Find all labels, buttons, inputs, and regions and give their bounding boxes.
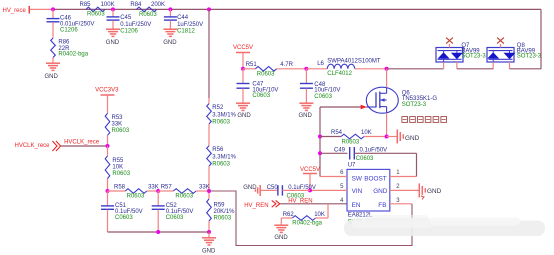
- capacitor C47: [237, 69, 279, 103]
- power VCC5V at VIN: [300, 167, 320, 190]
- svg-text:C1206: C1206: [120, 28, 138, 34]
- diode Q7: [436, 38, 486, 69]
- resistor R62: [281, 204, 328, 227]
- node VCC5V junction: [241, 67, 245, 71]
- svg-text:R84: R84: [130, 2, 142, 8]
- svg-text:10K: 10K: [112, 165, 123, 171]
- watermark: [344, 196, 545, 236]
- capacitor C48: [300, 69, 340, 103]
- capacitor C50: [261, 185, 316, 200]
- svg-text:R0603: R0603: [214, 215, 232, 221]
- capacitor C49: [320, 147, 417, 162]
- op-amp U7 regulator box: [347, 163, 390, 226]
- svg-text:HV_REN: HV_REN: [244, 203, 268, 209]
- svg-text:C0603: C0603: [166, 215, 184, 221]
- node C49 junction: [318, 151, 322, 155]
- svg-text:C1206: C1206: [60, 28, 78, 34]
- ground below C44: [163, 29, 177, 46]
- svg-text:C46: C46: [60, 15, 72, 21]
- svg-text:VCC5V: VCC5V: [233, 45, 253, 51]
- svg-text:C44: C44: [177, 15, 189, 21]
- svg-text:SW: SW: [352, 175, 363, 182]
- ground below C45: [106, 29, 120, 46]
- pin 2 GND: [390, 184, 420, 190]
- svg-text:R0402-bga: R0402-bga: [292, 221, 322, 227]
- wire HV_rece port to C46: [30, 8, 53, 10]
- svg-text:VCC5V: VCC5V: [300, 167, 320, 173]
- svg-text:R0603: R0603: [112, 171, 130, 177]
- svg-text:R0402-bga: R0402-bga: [58, 51, 88, 57]
- svg-text:R58: R58: [114, 184, 126, 190]
- svg-text:SOT23-3: SOT23-3: [461, 54, 486, 60]
- port HVCLK_rece: [15, 141, 61, 151]
- wire R56 to divider node: [208, 166, 210, 191]
- svg-text:4.7R: 4.7R: [280, 62, 293, 68]
- svg-text:R55: R55: [112, 158, 124, 164]
- pin 4 EN: [340, 198, 344, 204]
- svg-text:R0603: R0603: [212, 161, 230, 167]
- capacitor C52: [152, 191, 194, 232]
- svg-text:0.1uF/50V: 0.1uF/50V: [288, 185, 316, 191]
- ground below C48: [299, 103, 314, 119]
- note text: [402, 117, 447, 123]
- svg-text:R62: R62: [283, 212, 295, 218]
- svg-text:GND: GND: [299, 113, 313, 119]
- node HVCLK junction: [106, 144, 110, 148]
- node C44 junction: [168, 7, 172, 11]
- svg-text:R0603: R0603: [175, 193, 193, 199]
- svg-text:BOOST: BOOST: [364, 175, 386, 182]
- svg-text:R0603: R0603: [127, 193, 145, 199]
- wire L6 junction to Q7: [387, 68, 444, 70]
- pin 5 VIN: [310, 184, 347, 190]
- resistor R86: [51, 38, 89, 63]
- pin 6 SW: [320, 170, 347, 176]
- svg-text:0.1uF/50V: 0.1uF/50V: [360, 148, 388, 154]
- svg-text:33K: 33K: [112, 121, 123, 127]
- node C46 junction: [51, 7, 55, 11]
- svg-text:C0603: C0603: [115, 215, 133, 221]
- resistor R56: [207, 146, 237, 168]
- svg-text:GND: GND: [427, 188, 442, 195]
- wire HV_REN to EN: [280, 203, 347, 205]
- wire R52 to R56: [208, 124, 210, 146]
- svg-text:R0603: R0603: [257, 71, 275, 77]
- svg-text:C0603: C0603: [252, 93, 270, 99]
- resistor R85: [80, 2, 115, 18]
- svg-text:20K/1%: 20K/1%: [214, 209, 236, 215]
- ground below R86: [45, 63, 61, 80]
- wire R53 to HVCLK node: [107, 135, 109, 146]
- svg-text:VIN: VIN: [352, 188, 363, 195]
- wire Q7 to Q8: [457, 68, 493, 70]
- node Q6 source junction: [385, 135, 389, 139]
- svg-text:R53: R53: [112, 115, 124, 121]
- ground at C50: [243, 185, 260, 196]
- svg-text:200K: 200K: [151, 2, 165, 8]
- wire Q6 gate: [320, 106, 361, 108]
- svg-text:R51: R51: [246, 62, 258, 68]
- diode Q8: [487, 38, 542, 69]
- svg-text:L6: L6: [317, 61, 324, 67]
- wire Q6 drain-source vertical: [386, 69, 388, 88]
- svg-text:HVCLK_rece: HVCLK_rece: [15, 143, 51, 149]
- svg-text:GND: GND: [202, 249, 216, 255]
- wire Q8 to top rail: [510, 68, 542, 70]
- capacitor C45: [107, 9, 152, 34]
- svg-text:R0603: R0603: [139, 12, 157, 18]
- svg-text:GND: GND: [237, 113, 251, 119]
- svg-text:HV_rece: HV_rece: [3, 8, 27, 14]
- inductor L6: [306, 59, 386, 78]
- resistor R51: [243, 62, 306, 77]
- svg-text:VCC3V3: VCC3V3: [95, 87, 119, 93]
- svg-text:R59: R59: [214, 202, 226, 208]
- node C45 junction: [111, 7, 115, 11]
- port HV_REN: [244, 200, 280, 209]
- svg-text:C45: C45: [120, 15, 132, 21]
- resistor R53: [105, 113, 130, 135]
- node C52 bottom junction: [156, 230, 160, 234]
- svg-text:R0603: R0603: [112, 128, 130, 134]
- resistor R57: [158, 184, 209, 199]
- svg-text:10K: 10K: [314, 212, 325, 218]
- svg-text:0.01uF/250V: 0.01uF/250V: [60, 21, 94, 27]
- svg-text:10uF/10V: 10uF/10V: [314, 88, 340, 94]
- svg-text:100K: 100K: [101, 2, 115, 8]
- svg-text:C0603: C0603: [356, 156, 374, 162]
- resistor R58: [108, 184, 159, 199]
- resistor R59: [207, 191, 235, 232]
- power VCC5V: [233, 45, 253, 69]
- wire BOOST vertical: [416, 153, 418, 176]
- capacitor C44: [164, 9, 203, 34]
- svg-text:GND: GND: [373, 188, 388, 195]
- resistor R84: [130, 2, 165, 18]
- svg-text:C1812: C1812: [177, 28, 195, 34]
- wire SW node vertical: [319, 107, 321, 177]
- svg-text:SWPA4012S100MT: SWPA4012S100MT: [327, 59, 381, 65]
- svg-text:GND: GND: [405, 135, 420, 142]
- svg-text:R57: R57: [161, 184, 173, 190]
- ground at R54: [387, 130, 420, 144]
- ground below C47: [236, 103, 251, 119]
- svg-text:U7: U7: [348, 163, 356, 169]
- svg-text:R0603: R0603: [87, 12, 105, 18]
- svg-text:HV_REN: HV_REN: [288, 198, 312, 204]
- svg-text:1uF/250V: 1uF/250V: [177, 22, 203, 28]
- svg-text:C0603: C0603: [314, 94, 332, 100]
- svg-text:GND: GND: [45, 74, 59, 80]
- wire top rail to R52: [208, 9, 210, 98]
- node R54 junction: [318, 135, 322, 139]
- svg-text:R54: R54: [331, 130, 343, 136]
- node chain middle junction: [156, 189, 160, 193]
- ground below R62: [274, 225, 288, 241]
- pin 1 BOOST: [390, 170, 417, 176]
- svg-text:GND: GND: [106, 40, 120, 46]
- svg-text:R0603: R0603: [342, 140, 360, 146]
- node Q6 drain junction: [385, 67, 389, 71]
- svg-text:GND: GND: [163, 40, 177, 46]
- capacitor C46: [47, 9, 95, 38]
- svg-text:GND: GND: [274, 235, 288, 241]
- wire HVCLK_rece: [61, 145, 108, 147]
- svg-text:R85: R85: [80, 2, 92, 8]
- wire FB feedback loop: [209, 191, 412, 246]
- svg-text:SOT23-3: SOT23-3: [517, 54, 542, 60]
- node divider left junction: [106, 189, 110, 193]
- node divider right junction: [207, 189, 211, 193]
- wire top rail: [53, 8, 541, 10]
- node R59 bottom junction: [207, 230, 211, 234]
- svg-text:0.1uF/250V: 0.1uF/250V: [120, 22, 151, 28]
- power VCC3V3: [95, 87, 119, 113]
- transistor Q6: [366, 87, 437, 113]
- capacitor C51: [101, 191, 143, 232]
- svg-text:CLF4012: CLF4012: [327, 71, 352, 77]
- resistor R55: [105, 146, 131, 191]
- resistor R52: [207, 104, 237, 126]
- resistor R54: [320, 130, 387, 145]
- pin 3 FB: [390, 198, 412, 204]
- svg-text:R0603: R0603: [212, 119, 230, 125]
- svg-text:FB: FB: [378, 202, 386, 209]
- svg-text:C50: C50: [267, 185, 279, 191]
- svg-text:3.3M/1%: 3.3M/1%: [212, 154, 236, 160]
- svg-text:R56: R56: [212, 147, 224, 153]
- node VIN junction: [308, 188, 312, 192]
- svg-text:HVCLK_rece: HVCLK_rece: [64, 139, 100, 145]
- ground at pin 2: [419, 183, 441, 197]
- wire bottom rail: [108, 231, 210, 233]
- ground below R59: [202, 232, 216, 255]
- svg-text:10K: 10K: [361, 130, 372, 136]
- node R52 junction: [207, 7, 211, 11]
- svg-text:EN: EN: [352, 202, 361, 209]
- svg-text:C49: C49: [334, 148, 346, 154]
- svg-text:3.3M/1%: 3.3M/1%: [212, 112, 236, 118]
- node C48 junction: [304, 67, 308, 71]
- svg-text:R52: R52: [212, 105, 224, 111]
- svg-text:SOT23-3: SOT23-3: [402, 102, 427, 108]
- svg-text:R86: R86: [58, 40, 70, 46]
